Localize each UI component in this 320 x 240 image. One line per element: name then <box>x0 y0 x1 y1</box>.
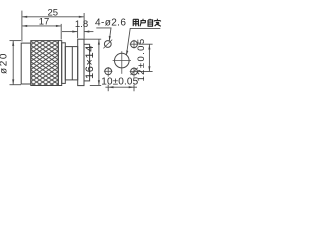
dimension ø20 (vertical, left) <box>10 41 22 85</box>
定 <box>154 19 161 26</box>
dimension 17 <box>22 24 61 40</box>
body internal step line <box>71 47 73 80</box>
rear rim section A <box>21 43 31 84</box>
body section <box>65 47 77 80</box>
hole top-right <box>131 41 138 48</box>
45 deg centreline through top-left hole <box>103 40 112 49</box>
washer section <box>62 43 66 84</box>
mounting flange (edge view, 1.8 thick) <box>78 39 84 85</box>
svg-text:10±0.05: 10±0.05 <box>101 77 138 88</box>
svg-text:1.8: 1.8 <box>75 19 88 30</box>
dimension 25 <box>22 11 84 42</box>
hole bottom-left <box>105 68 112 75</box>
户 <box>140 19 146 26</box>
用 <box>133 19 138 26</box>
自 <box>148 19 153 26</box>
hole bottom-right <box>131 68 138 75</box>
svg-text:16×14: 16×14 <box>84 45 96 79</box>
svg-text:17: 17 <box>39 17 50 28</box>
front section <box>84 44 90 81</box>
centre circle <box>115 53 130 68</box>
hole top-left <box>104 41 111 48</box>
dimension 16x14 (flange height, rotated) <box>85 39 102 85</box>
underline + leader to centre circle <box>126 28 160 55</box>
label 用户自定 (user defined) with leader to centre circle <box>133 19 161 26</box>
dimension 10±0.05 (horizontal, bottom) <box>105 85 137 92</box>
centre circle centrelines <box>113 51 131 74</box>
svg-text:4-ø2.6: 4-ø2.6 <box>95 18 126 29</box>
svg-text:12±0.05: 12±0.05 <box>136 37 147 81</box>
dimension 12±0.05 (vertical, right) <box>139 44 153 71</box>
dimension 1.8 (flange thickness) <box>62 27 93 38</box>
knurled body ø20 (hatched) <box>31 41 59 86</box>
svg-text:ø20: ø20 <box>0 52 10 74</box>
plain collar of knurled nut <box>58 41 61 86</box>
